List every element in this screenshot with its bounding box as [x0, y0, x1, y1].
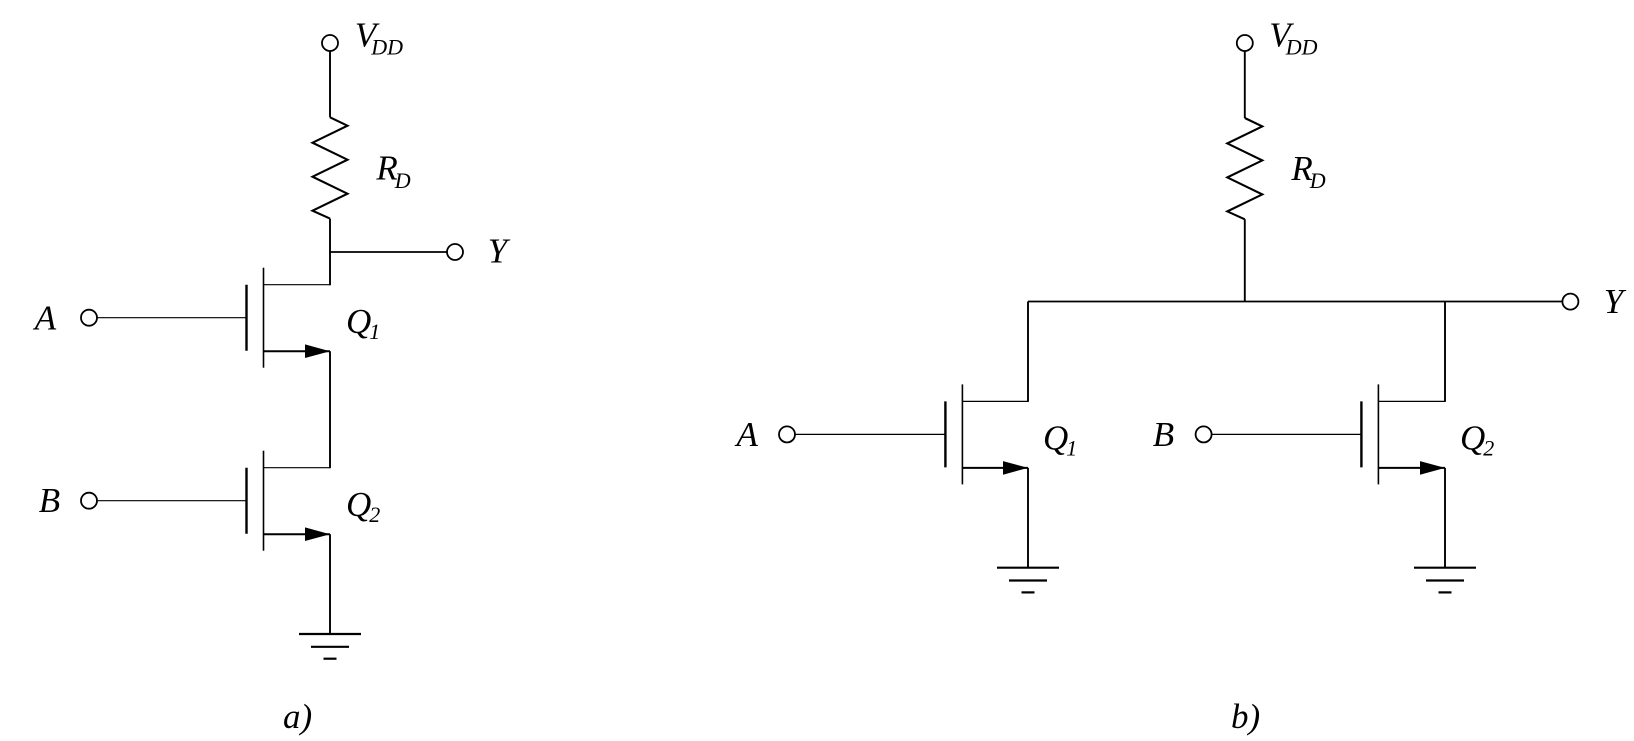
wire Q1 source to ground (b) — [1027, 468, 1029, 568]
svg-text:B: B — [1153, 415, 1174, 454]
svg-text:B: B — [39, 481, 60, 520]
wire to output Y (a) — [330, 251, 447, 253]
transistor Q2 (b) — [1212, 384, 1445, 484]
Q2b drain lead — [1378, 400, 1445, 402]
Q1b gate lead wire — [795, 433, 945, 435]
Q2b gate bar — [1360, 401, 1362, 467]
wire Q2 source to ground (b) — [1444, 468, 1446, 568]
Q1 gate lead wire — [97, 317, 247, 319]
Q2b source lead — [1378, 467, 1445, 469]
Q1b drain lead — [962, 400, 1028, 402]
svg-text:RD: RD — [375, 149, 410, 193]
Q2 gate lead wire — [97, 500, 247, 502]
Q2b channel bar — [1377, 384, 1379, 484]
ground symbol under Q2 (b) — [1414, 568, 1476, 593]
input B terminal circle (b) — [1196, 426, 1212, 442]
transistor Q1 (a) — [97, 268, 330, 368]
svg-text:a): a) — [283, 697, 312, 736]
wire resistor to Q1 drain (a) — [329, 219, 331, 286]
svg-text:b): b) — [1231, 697, 1260, 736]
Q1 source arrow — [305, 344, 330, 358]
ground symbol (a) — [299, 634, 361, 659]
wire Q1 source to Q2 drain (a) — [329, 351, 331, 468]
Q1 source lead — [264, 350, 331, 352]
svg-text:Q1: Q1 — [1043, 419, 1077, 461]
input B terminal circle (a) — [81, 493, 97, 509]
Q2 source arrow — [305, 527, 330, 541]
wire bus to Q2 drain (b) — [1444, 302, 1446, 402]
Q1b channel bar — [961, 384, 963, 484]
svg-text:A: A — [735, 415, 759, 454]
wire VDD to resistor (a) — [329, 51, 331, 117]
svg-text:RD: RD — [1290, 149, 1325, 193]
transistor Q2 (a) — [97, 451, 330, 551]
Q2 drain lead — [264, 467, 331, 469]
svg-text:Y: Y — [488, 232, 511, 271]
svg-text:VDD: VDD — [1269, 15, 1317, 59]
ground symbol under Q1 (b) — [997, 568, 1059, 593]
VDD terminal circle (b) — [1237, 35, 1253, 51]
Q2b gate lead wire — [1212, 433, 1362, 435]
resistor RD (a) — [313, 117, 348, 218]
Q1b gate bar — [944, 401, 946, 467]
output bus wire (b) — [1028, 301, 1562, 303]
transistor Q1 (b) — [795, 384, 1028, 484]
Q1 drain lead — [264, 284, 331, 286]
Q1b source arrow — [1003, 461, 1028, 475]
Q2 gate bar — [245, 468, 247, 534]
svg-text:Y: Y — [1604, 282, 1627, 321]
output Y terminal circle (b) — [1562, 294, 1578, 310]
resistor RD (b) — [1227, 118, 1262, 219]
wire bus to Q1 drain (b) — [1027, 302, 1029, 402]
Q1b source lead — [962, 467, 1028, 469]
Q2b source arrow — [1420, 461, 1445, 475]
Q1 channel bar — [263, 268, 265, 368]
wire VDD to resistor (b) — [1244, 51, 1246, 118]
svg-text:Q1: Q1 — [346, 302, 380, 344]
Q2 channel bar — [263, 451, 265, 551]
VDD terminal circle (a) — [322, 35, 338, 51]
svg-text:VDD: VDD — [355, 15, 403, 59]
Q1 gate bar — [245, 285, 247, 351]
output Y terminal circle (a) — [447, 244, 463, 260]
input A terminal circle (b) — [779, 426, 795, 442]
input A terminal circle (a) — [81, 310, 97, 326]
wire Q2 source to ground (a) — [329, 534, 331, 634]
svg-text:A: A — [33, 299, 57, 338]
svg-text:Q2: Q2 — [346, 485, 380, 527]
svg-text:Q2: Q2 — [1460, 419, 1494, 461]
Q2 source lead — [264, 533, 331, 535]
wire resistor to output bus (b) — [1244, 219, 1246, 301]
